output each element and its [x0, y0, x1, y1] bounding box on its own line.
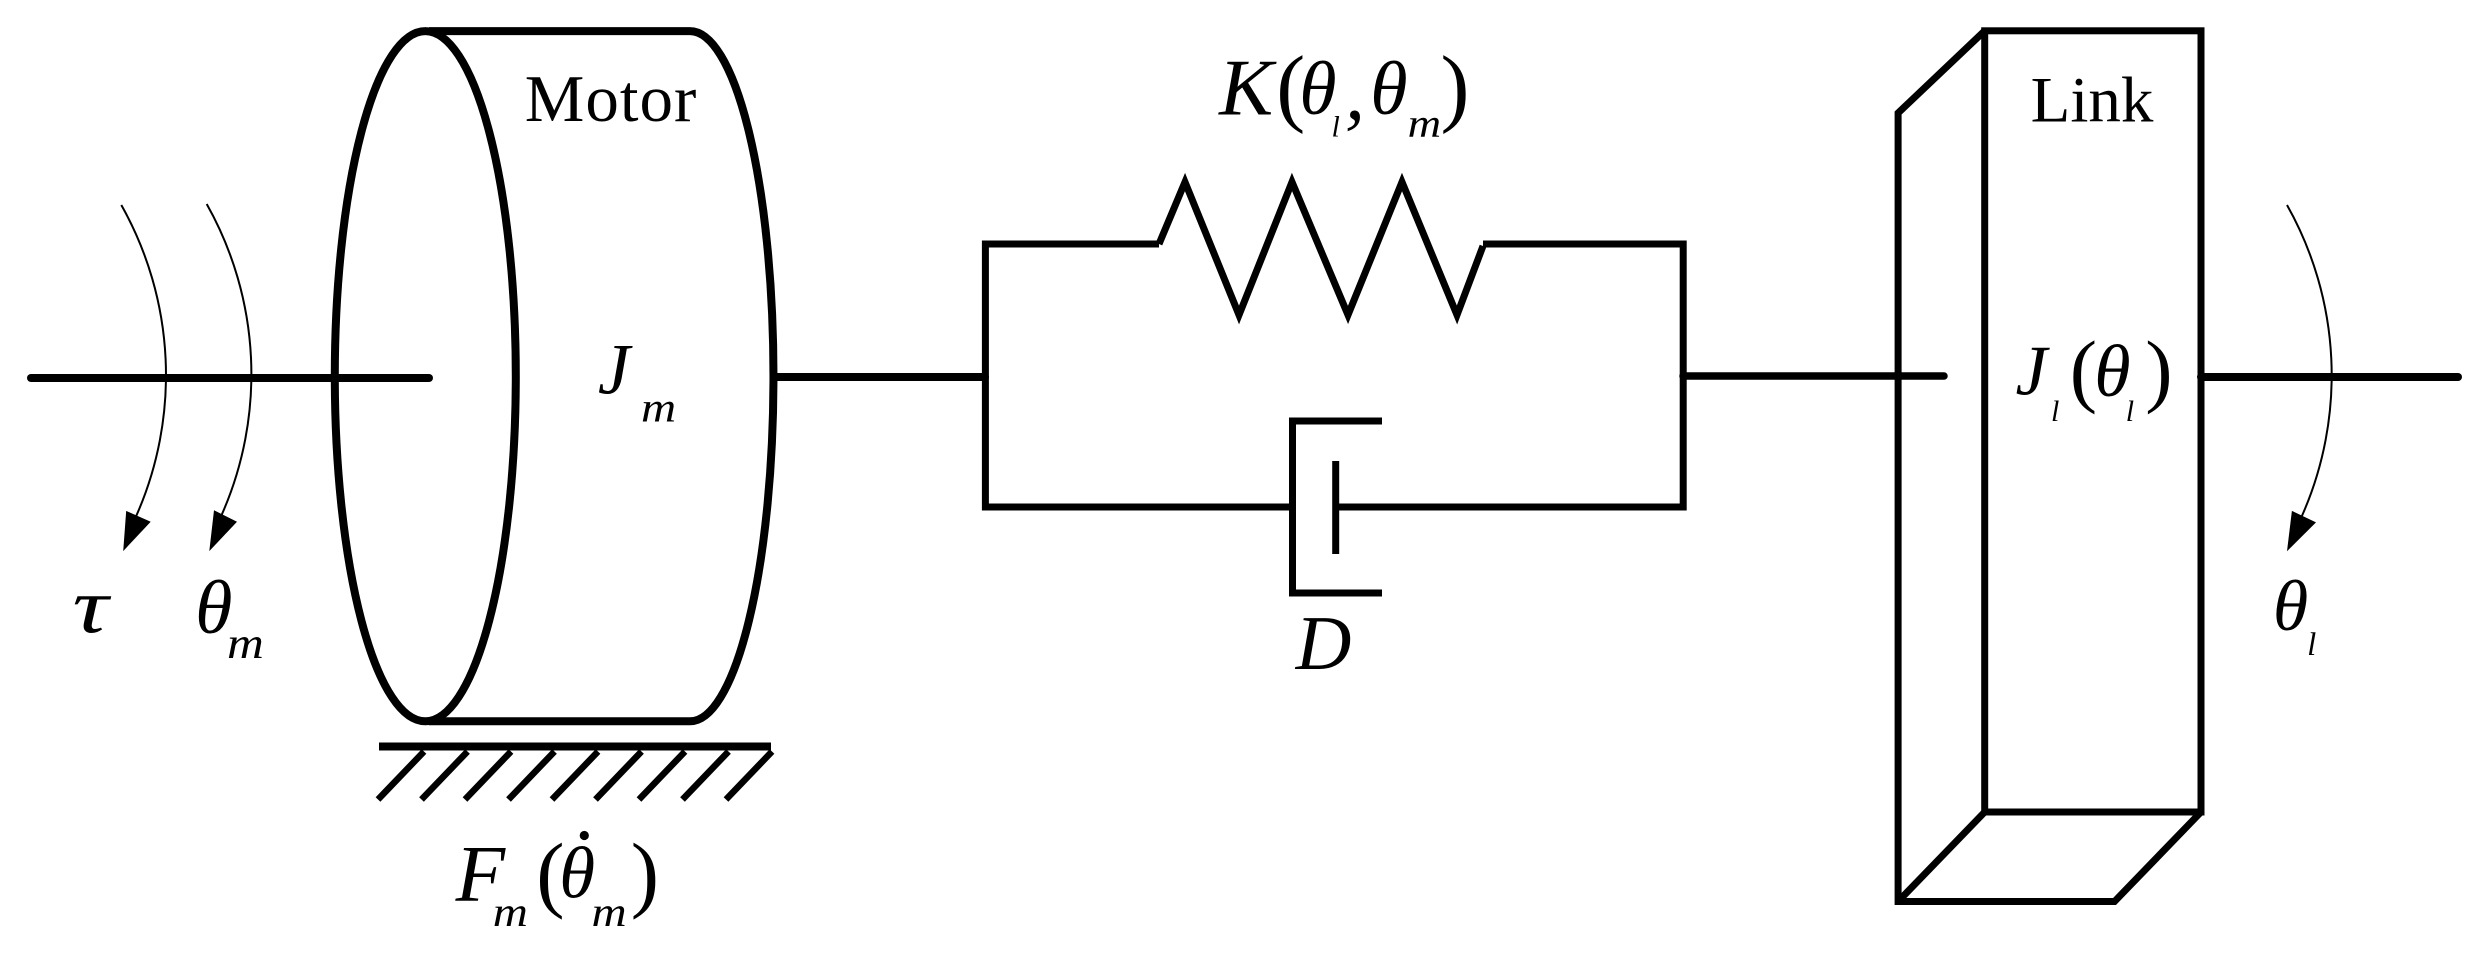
- motor shaft wire: [774, 373, 986, 381]
- svg-text:): ): [631, 826, 659, 920]
- motor cylinder front face ellipse: [335, 31, 516, 721]
- svg-text:m: m: [493, 888, 528, 935]
- output shaft wire: [2201, 373, 2458, 381]
- damper D piston plate: [1332, 461, 1339, 554]
- svg-text:τ: τ: [73, 563, 112, 649]
- svg-text:): ): [2145, 324, 2172, 415]
- svg-text:J: J: [2016, 333, 2051, 411]
- motor cylinder body: [429, 31, 773, 721]
- svg-text:l: l: [2051, 395, 2059, 428]
- svg-text:m: m: [641, 384, 676, 431]
- svg-text:θ: θ: [2273, 566, 2308, 646]
- angle arrow theta_m arc: [207, 204, 252, 515]
- svg-text:θ: θ: [559, 833, 595, 914]
- svg-text:): ): [1441, 37, 1470, 134]
- link front face: [1985, 31, 2201, 812]
- damper D cylinder: [1293, 421, 1383, 593]
- svg-text:D: D: [1295, 600, 1352, 686]
- svg-text:Motor: Motor: [525, 62, 698, 136]
- svg-text:m: m: [227, 620, 264, 668]
- svg-text:Link: Link: [2031, 65, 2154, 137]
- ground hatching: [378, 752, 772, 800]
- spring-damper box left and bottom-left wire: [985, 244, 1292, 507]
- svg-text:,: ,: [1345, 49, 1365, 137]
- svg-text:m: m: [1408, 102, 1442, 146]
- svg-text:l: l: [2307, 627, 2316, 663]
- spring-damper box right and rod wire: [1336, 244, 1684, 507]
- svg-text:m: m: [592, 888, 627, 935]
- torque arrow tau arc: [121, 205, 166, 516]
- angle arrow theta_m head: [209, 510, 237, 551]
- svg-text:(: (: [2070, 324, 2097, 415]
- svg-text:θ: θ: [1370, 47, 1407, 131]
- svg-text:l: l: [1332, 111, 1340, 144]
- angle arrow theta_l arc: [2287, 205, 2332, 516]
- torque arrow tau head: [123, 511, 151, 551]
- svg-text:J: J: [598, 330, 633, 410]
- link shaft wire: [1683, 372, 1944, 380]
- ground line: [379, 743, 771, 751]
- svg-text:l: l: [2126, 395, 2134, 428]
- angle arrow theta_l head: [2287, 511, 2316, 551]
- spring K zigzag: [1159, 182, 1483, 315]
- link bottom-left oblique edge: [1898, 812, 1985, 902]
- input shaft wire: [31, 374, 429, 382]
- svg-text:K: K: [1218, 43, 1277, 133]
- link back and bottom faces: [1898, 31, 2201, 902]
